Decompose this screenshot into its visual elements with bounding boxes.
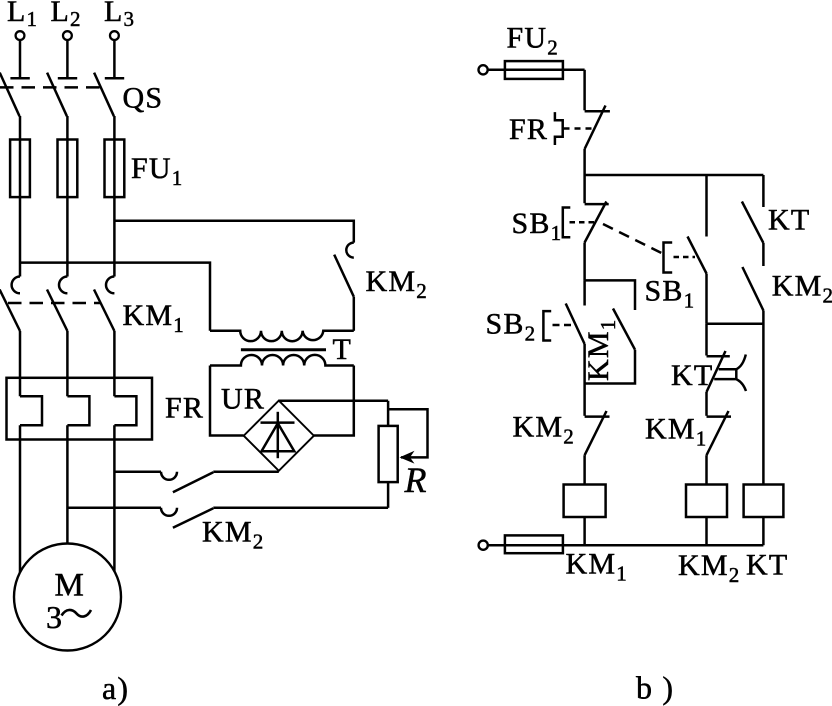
fuse FU2: [505, 61, 563, 79]
terminal top: [479, 65, 488, 74]
wire R bottom: [387, 482, 390, 508]
svg-text:3: 3: [46, 599, 63, 635]
thermal relay FR contact: [585, 106, 610, 150]
switch QS pole 1: [0, 73, 30, 117]
wire pole3 to transformer: [114, 221, 353, 243]
wire KM2 coil to rail: [705, 517, 708, 545]
svg-text:L1: L1: [7, 0, 38, 31]
button SB1 NO actuator: [664, 243, 696, 273]
svg-text:QS: QS: [123, 82, 164, 115]
fuse bottom: [505, 535, 563, 553]
wire rail to SB1: [583, 175, 586, 203]
wire pole2 KM1 to FR: [66, 331, 69, 396]
wire pole3 FR to motor: [113, 425, 116, 571]
svg-text:R: R: [404, 460, 428, 500]
wire KM2 to primary right: [353, 297, 356, 331]
wire pole1 FR to motor: [19, 425, 22, 572]
wire braking branch bottom from pole2: [67, 507, 161, 510]
wire pole1 QS to KM1: [19, 116, 22, 277]
svg-text:SB1: SB1: [645, 275, 696, 313]
wire KM2 NO down to KT coil: [762, 311, 765, 485]
contactor KM1 main contact pole 3: [94, 277, 114, 332]
svg-text:FR: FR: [165, 392, 204, 425]
svg-text:KM2: KM2: [202, 516, 264, 554]
thermal relay FR heater pole 2: [67, 396, 89, 425]
wire pole1 KM1 to FR: [19, 331, 22, 396]
wire L3 drop: [113, 41, 116, 78]
svg-text:KM1: KM1: [582, 319, 620, 381]
transformer T secondary: [210, 355, 354, 366]
fuse FU1 pole 2: [58, 140, 78, 198]
stop button SB1 NC contact: [585, 202, 609, 243]
wire to KM1 coil: [583, 455, 586, 484]
svg-text:FR: FR: [509, 113, 548, 146]
svg-text:b ): b ): [636, 670, 674, 706]
stop button SB1 actuator: [563, 208, 594, 238]
contact KM2 NO: [742, 267, 763, 311]
terminal L2: [51, 0, 82, 40]
wire terminal to corner: [488, 69, 585, 72]
wire secondary left to rectifier: [210, 366, 244, 436]
wire down to R top: [387, 401, 390, 426]
wire pole2 FR to motor: [66, 425, 69, 543]
contact KT NO: [742, 202, 764, 244]
svg-text:L3: L3: [104, 0, 135, 31]
svg-text:L2: L2: [51, 0, 82, 31]
thermal relay FR heater pole 1: [20, 396, 42, 425]
wire KM1 coil to rail: [583, 517, 586, 545]
wire braking branch top from pole3: [114, 471, 161, 474]
switch QS linkage: [0, 86, 102, 89]
terminal L1: [7, 0, 38, 40]
wire FR to rail: [583, 149, 586, 175]
svg-text:KM2: KM2: [678, 549, 740, 587]
motor M: [14, 544, 121, 651]
resistor R wiper loop: [388, 409, 427, 457]
rectifier UR diode: [261, 412, 295, 458]
wire top rail: [585, 174, 764, 177]
svg-text:a): a): [102, 670, 129, 706]
thermal relay FR box: [7, 378, 153, 440]
wire SB1 to loop: [583, 243, 586, 281]
wire braking bottom to resistor: [213, 507, 388, 510]
svg-text:FU2: FU2: [507, 22, 559, 60]
contact KM1 self-hold: [585, 280, 635, 383]
wire secondary right to rectifier: [314, 366, 354, 436]
wire bottom rail: [488, 544, 764, 547]
coil KT: [744, 485, 784, 518]
linkage SB1 diagonal: [603, 224, 662, 253]
svg-text:FU1: FU1: [131, 152, 183, 190]
wire L2 drop: [66, 41, 69, 78]
contact KM1 NC interlock: [707, 411, 732, 455]
wire rail to SB1 NO: [705, 175, 708, 237]
thermal relay FR actuator: [555, 112, 594, 145]
contactor KM1 main contact pole 2: [47, 277, 67, 332]
switch QS pole 3: [94, 73, 124, 117]
wire pole3 QS to KM1: [113, 116, 116, 277]
wire down to FR contact: [583, 70, 586, 111]
wire to KM2 coil: [705, 455, 708, 484]
contactor KM2 braking contact top: [161, 472, 213, 492]
transformer T core: [241, 348, 326, 351]
wire KT coil to rail: [762, 517, 765, 545]
resistor R body: [379, 426, 398, 482]
switch QS pole 2: [47, 73, 77, 117]
start button SB2 actuator: [543, 311, 575, 340]
svg-text:UR: UR: [221, 383, 265, 416]
coil KM2: [686, 485, 727, 518]
svg-text:SB2: SB2: [486, 308, 537, 346]
rectifier UR diamond: [244, 401, 314, 471]
svg-text:KM2: KM2: [366, 265, 428, 303]
svg-text:SB1: SB1: [512, 207, 563, 245]
contact KM2 NC interlock: [585, 384, 610, 456]
start button SB2 contact: [566, 280, 585, 383]
wire rail to KT NO: [762, 175, 765, 207]
wire L1 drop: [19, 41, 22, 78]
contactor KM2 braking contact bottom: [161, 508, 213, 528]
contactor KM2 contact transformer: [334, 243, 354, 297]
svg-text:KM1: KM1: [645, 413, 707, 451]
wire junction to KT contact: [705, 324, 708, 356]
wire KT NO to KM2 NO: [762, 243, 765, 266]
svg-text:KM2: KM2: [772, 270, 832, 308]
svg-text:KM1: KM1: [123, 299, 185, 337]
wire rectifier plus to R: [279, 400, 388, 403]
transformer T primary: [210, 331, 354, 341]
coil KM1: [564, 485, 606, 518]
svg-text:KT: KT: [746, 549, 788, 582]
wire pole1 to primary left: [20, 263, 210, 331]
wire braking top to rectifier: [213, 471, 278, 474]
svg-text:KM1: KM1: [566, 548, 628, 586]
svg-text:KT: KT: [671, 359, 713, 392]
svg-text:KM2: KM2: [513, 411, 575, 449]
fuse FU1 pole 1: [10, 140, 30, 198]
contactor KM1 linkage: [8, 302, 101, 305]
wire pole3 KM1 to FR: [113, 331, 116, 396]
button SB1 NO contact: [688, 237, 707, 324]
time relay KT delayed NC contact: [707, 351, 730, 416]
wire pole2 QS to KM1: [66, 116, 69, 277]
thermal relay FR heater pole 3: [114, 396, 136, 425]
wire junction middle to right: [707, 323, 764, 326]
fuse FU1 pole 3: [105, 140, 125, 198]
resistor R wiper arrow: [400, 451, 415, 464]
contactor KM1 main contact pole 1: [0, 277, 20, 332]
terminal L3: [104, 0, 135, 40]
svg-text:KT: KT: [768, 204, 810, 237]
time relay KT delay symbol: [714, 355, 746, 392]
svg-text:T: T: [333, 333, 353, 366]
terminal bottom: [479, 541, 488, 550]
